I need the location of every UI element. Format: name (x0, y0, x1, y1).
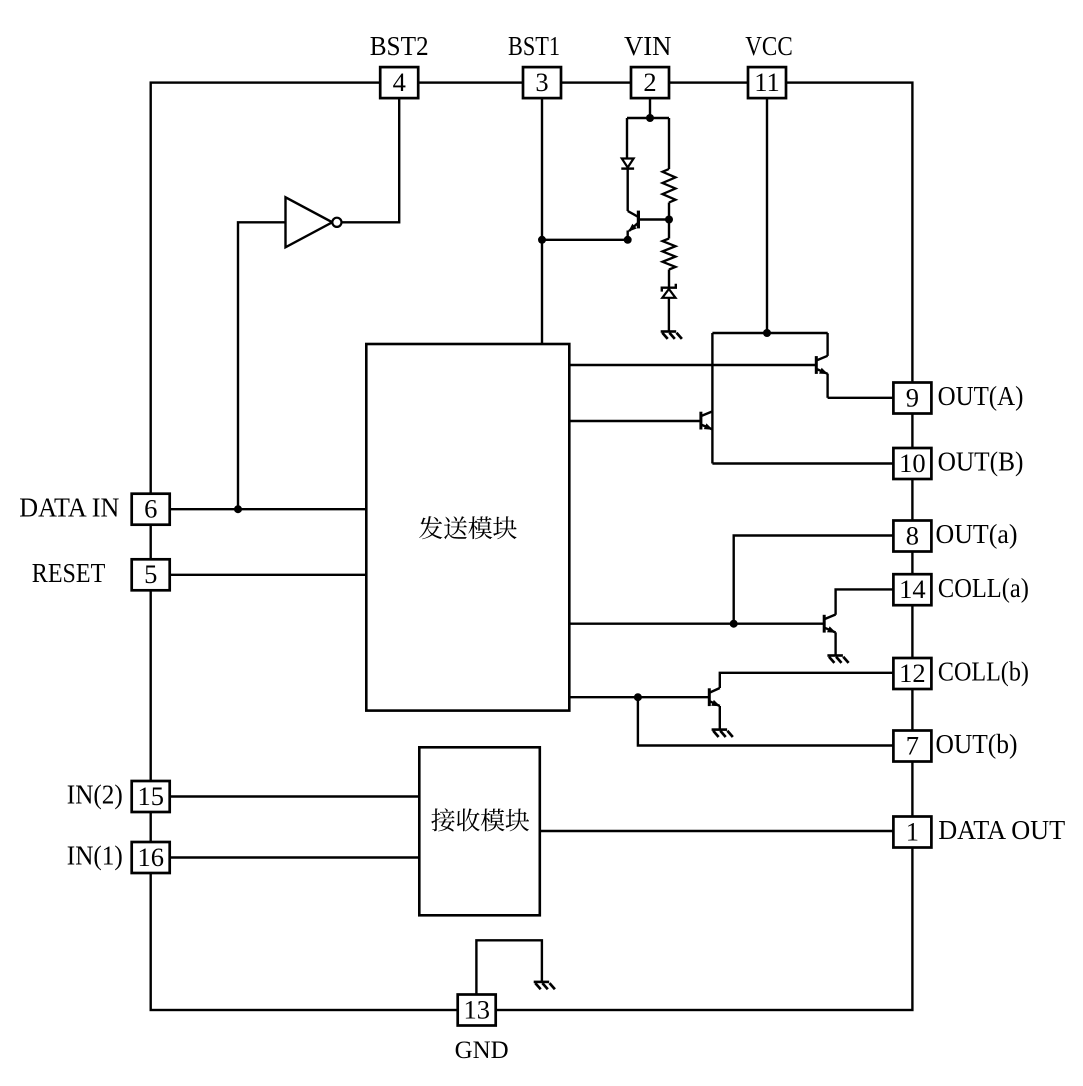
svg-text:2: 2 (643, 67, 656, 97)
svg-text:BST2: BST2 (370, 30, 429, 61)
svg-text:OUT(b): OUT(b) (936, 728, 1018, 759)
svg-text:11: 11 (754, 67, 780, 97)
svg-text:IN(1): IN(1) (67, 840, 123, 871)
svg-text:13: 13 (463, 994, 490, 1024)
svg-text:3: 3 (535, 67, 548, 97)
svg-text:14: 14 (899, 574, 926, 604)
svg-text:COLL(b): COLL(b) (938, 656, 1029, 687)
svg-text:5: 5 (144, 559, 157, 589)
svg-text:VCC: VCC (745, 30, 793, 61)
svg-text:16: 16 (137, 842, 164, 872)
svg-text:12: 12 (899, 658, 926, 688)
svg-text:GND: GND (455, 1037, 509, 1064)
svg-text:1: 1 (906, 816, 919, 846)
svg-text:IN(2): IN(2) (67, 779, 123, 810)
svg-text:8: 8 (906, 520, 919, 550)
svg-text:7: 7 (906, 730, 919, 760)
svg-text:OUT(a): OUT(a) (936, 518, 1018, 549)
svg-text:VIN: VIN (624, 30, 672, 61)
svg-text:RESET: RESET (32, 557, 106, 588)
svg-text:9: 9 (906, 382, 919, 412)
svg-text:DATA OUT: DATA OUT (938, 814, 1065, 845)
svg-text:4: 4 (393, 67, 406, 97)
svg-text:OUT(B): OUT(B) (938, 446, 1024, 477)
svg-text:DATA IN: DATA IN (19, 491, 119, 522)
svg-text:10: 10 (899, 448, 926, 478)
svg-text:BST1: BST1 (508, 30, 560, 61)
svg-text:6: 6 (144, 494, 157, 524)
svg-text:OUT(A): OUT(A) (938, 380, 1024, 411)
svg-text:15: 15 (137, 781, 164, 811)
svg-text:COLL(a): COLL(a) (938, 572, 1029, 603)
